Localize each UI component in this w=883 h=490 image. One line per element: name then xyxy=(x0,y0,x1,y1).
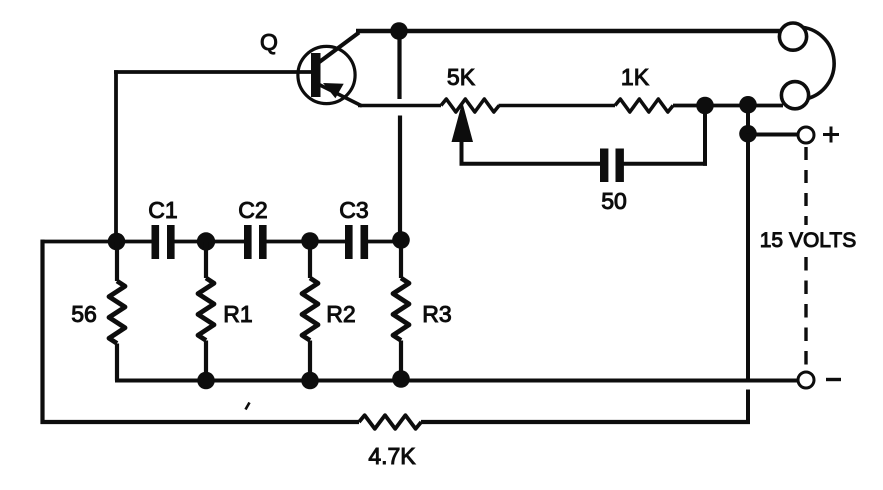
stray mark slash xyxy=(246,403,250,410)
node junction dot 50-cap feedback xyxy=(696,97,714,115)
wire to + terminal xyxy=(748,133,798,137)
svg-text:56: 56 xyxy=(71,301,97,327)
wire left return vertical xyxy=(40,240,44,424)
node dot C2/C3 xyxy=(301,232,319,250)
svg-text:C1: C1 xyxy=(148,197,177,223)
wire 4.7K rail left xyxy=(41,420,360,424)
node dot R1 bottom xyxy=(197,372,215,390)
wire main supply vertical (break at ground rail crossover) xyxy=(746,134,750,381)
capacitor C2 xyxy=(244,225,267,259)
svg-text:4.7K: 4.7K xyxy=(368,443,416,469)
node junction dot supply branch xyxy=(739,96,757,114)
capacitor 50 xyxy=(600,149,624,183)
resistor R1 xyxy=(198,242,214,381)
svg-text:C3: C3 xyxy=(339,197,368,223)
wire C network rail segment 4 xyxy=(368,240,402,244)
svg-text:R2: R2 xyxy=(326,301,355,327)
wire wiper feedback horizontal to 50 cap xyxy=(460,162,601,166)
capacitor C1 xyxy=(152,225,175,259)
wire C network rail segment 3 xyxy=(266,240,346,244)
node dot C1 input xyxy=(108,233,126,251)
svg-text:C2: C2 xyxy=(238,197,267,223)
wire base lead xyxy=(114,70,312,74)
wire vertical from top junction down to C3 node (break at crossover) xyxy=(397,33,401,99)
resistor R3 xyxy=(393,240,409,381)
headphones xyxy=(779,23,834,109)
svg-text:R3: R3 xyxy=(422,301,451,327)
resistor 1K body xyxy=(615,99,673,112)
resistor 4.7K body xyxy=(359,415,421,429)
battery dashed line upper xyxy=(804,147,807,225)
label - sign xyxy=(826,378,841,381)
wire emitter output to 5K xyxy=(358,104,441,107)
wire vertical lower part to C3/R3 node xyxy=(398,116,402,242)
node dot R3 bottom xyxy=(392,370,410,388)
wire 50 cap to riser xyxy=(624,162,708,166)
svg-text:1K: 1K xyxy=(621,64,650,90)
wire 4.7K rail right xyxy=(421,420,750,424)
transistor Q xyxy=(298,33,362,107)
node junction dot at + branch xyxy=(739,125,757,143)
wire from 1K to phones xyxy=(673,104,783,108)
wire between 5K and 1K xyxy=(499,104,616,107)
node dot C3 output xyxy=(392,231,410,249)
battery dashed line lower xyxy=(804,257,807,371)
terminal + circle xyxy=(798,127,814,143)
potentiometer 5K body xyxy=(441,99,499,112)
wire feedback riser up to junction xyxy=(703,104,707,166)
resistor 56 xyxy=(109,242,125,381)
node dot R2 bottom xyxy=(301,372,319,390)
svg-text:R1: R1 xyxy=(223,301,252,327)
capacitor C3 xyxy=(345,225,368,259)
node top junction dot xyxy=(390,22,408,40)
svg-text:50: 50 xyxy=(601,188,627,214)
potentiometer 5K wiper arrow xyxy=(452,102,474,142)
node dot C1/C2 xyxy=(197,232,215,250)
wire ground rail xyxy=(115,379,798,383)
svg-text:Q: Q xyxy=(260,29,278,55)
wire C network rail segment 2 xyxy=(174,240,245,244)
svg-text:5K: 5K xyxy=(447,64,476,90)
terminal - circle xyxy=(798,372,814,388)
wire C network rail segment 1 xyxy=(41,240,153,244)
resistor R2 xyxy=(302,242,318,381)
wire supply vertical lower stub xyxy=(746,390,750,425)
wire branch down to + terminal xyxy=(746,104,750,134)
potentiometer 5K wiper stem xyxy=(460,139,464,164)
wire top collector rail xyxy=(356,29,781,34)
svg-text:15 VOLTS: 15 VOLTS xyxy=(760,229,857,252)
label + sign xyxy=(823,127,839,143)
wire feedback vertical from base loop to C1 node xyxy=(114,70,118,241)
